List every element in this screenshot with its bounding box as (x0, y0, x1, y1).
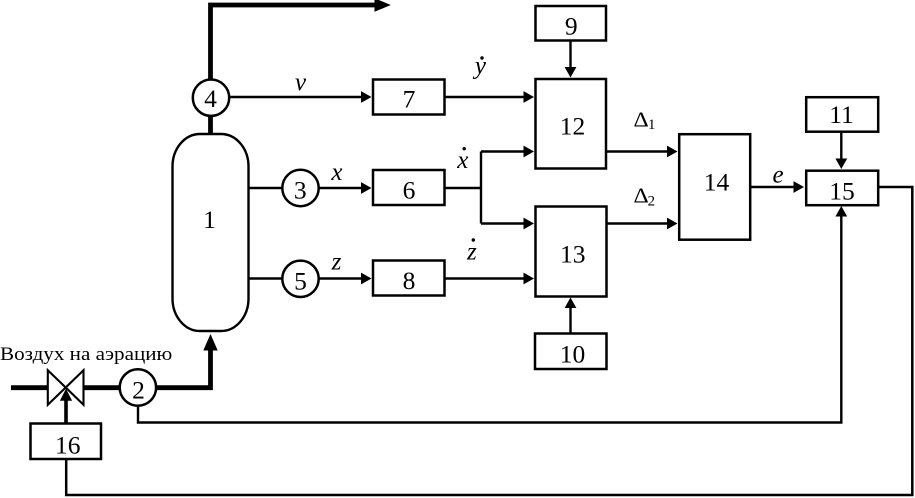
wire: sensor 4 to tank top (thick) (208, 115, 213, 135)
svg-text:5: 5 (294, 266, 307, 295)
svg-text:2: 2 (648, 194, 655, 210)
block 7 (373, 80, 445, 115)
svg-text:7: 7 (403, 84, 416, 113)
wire: sensor 2 to tank bottom (thick, with arrow up into tank) (156, 349, 211, 388)
svg-text:4: 4 (204, 84, 217, 113)
label y-dot (472, 53, 487, 80)
svg-text:8: 8 (403, 266, 416, 295)
svg-text:3: 3 (294, 175, 307, 204)
svg-text:9: 9 (565, 12, 578, 41)
wire x: circle 3 to block 6 (319, 187, 362, 189)
svg-text:z: z (331, 249, 342, 276)
svg-text:13: 13 (560, 239, 586, 268)
block 11 (806, 97, 878, 132)
wire e: block 14 to block 15 (751, 186, 794, 188)
block 6 (373, 170, 445, 205)
block 16 (31, 424, 102, 460)
wire delta2: block 13 to block 14 (607, 222, 669, 224)
wire v: circle 4 to block 7 (230, 96, 363, 98)
svg-text:1: 1 (203, 205, 216, 234)
svg-text:Δ: Δ (634, 184, 649, 208)
svg-text:10: 10 (560, 339, 586, 368)
block 8 (373, 261, 445, 296)
svg-text:y: y (472, 53, 487, 80)
block 9 (536, 6, 607, 41)
wire: tank to sensor 5 (249, 277, 284, 279)
svg-text:2: 2 (132, 375, 145, 404)
block 15 (806, 171, 878, 206)
label x-dot (456, 147, 468, 174)
svg-text:x: x (456, 147, 468, 174)
wire: tank to sensor 3 (249, 187, 284, 189)
block 1 (aeration tank) (173, 134, 249, 331)
wire x-dot: block 6 output with branch to 12 and 13 (445, 152, 524, 224)
wire y-dot: block 7 to block 12 (445, 96, 524, 98)
wire z-dot: block 8 to block 13 (445, 277, 524, 279)
wire: valve to sensor 2 (thick) (84, 385, 120, 390)
svg-text:e: e (772, 162, 783, 189)
svg-text:12: 12 (560, 111, 586, 140)
svg-text:1: 1 (648, 117, 655, 133)
svg-text:15: 15 (829, 176, 855, 205)
wire z: circle 5 to block 8 (319, 277, 362, 279)
wire: thick output line from sensor 4 up and right with big arrow (211, 5, 376, 80)
block 13 (536, 207, 607, 297)
wire: air pipe from left edge to valve (thick) (11, 385, 48, 390)
svg-text:z: z (466, 239, 477, 266)
svg-text:x: x (330, 159, 342, 186)
label z-dot (466, 238, 477, 265)
svg-text:11: 11 (829, 100, 854, 129)
sensor circle 4 (193, 80, 229, 116)
wire: block 16 up to valve (actuator arrow) (64, 400, 68, 424)
block 14 (679, 134, 750, 240)
block 10 (535, 334, 607, 370)
sensor circle 2 (120, 369, 156, 405)
wire: feedback from circle 2 up into block 15 bottom (138, 216, 841, 423)
wire: block 15 output right, down, along bottom, up to block 16 (66, 187, 912, 495)
sensor circle 5 (282, 261, 318, 297)
svg-text:Воздух на аэрацию: Воздух на аэрацию (0, 344, 172, 365)
svg-text:14: 14 (704, 168, 730, 197)
wire: block 10 up to block 13 (569, 307, 571, 333)
wire: block 9 down to block 12 (569, 41, 571, 68)
svg-text:6: 6 (403, 176, 416, 205)
block 12 (536, 79, 607, 169)
wire delta1: block 12 to block 14 (607, 150, 669, 152)
valve (bowtie) (48, 370, 84, 405)
sensor circle 3 (282, 170, 318, 206)
wire: block 11 down to block 15 (840, 132, 842, 160)
svg-text:16: 16 (55, 430, 81, 459)
svg-text:v: v (295, 69, 307, 96)
svg-text:Δ: Δ (634, 108, 649, 132)
